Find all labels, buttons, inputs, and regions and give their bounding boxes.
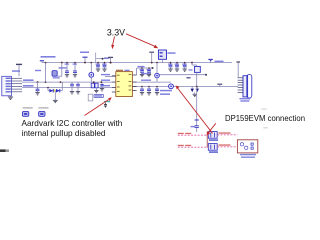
ground below diodes	[53, 91, 58, 103]
net label TMDS2r	[219, 144, 231, 145]
label right of U3	[168, 52, 176, 54]
node junction on SCL	[37, 81, 39, 83]
diode D1	[48, 88, 62, 93]
wire vertical x45.5 rail to SCL	[45, 62, 47, 83]
net label TMDS2	[178, 145, 184, 146]
micro text TPD label top-left	[41, 56, 56, 58]
ESD chip U11	[208, 144, 218, 153]
wire SCL_3V3	[22, 81, 116, 83]
capacitor C5	[102, 62, 107, 72]
net label SDA_3V3	[23, 85, 34, 87]
node junction rail x192	[191, 62, 193, 64]
capacitor C17	[191, 126, 199, 132]
power flag T on bus	[217, 84, 222, 86]
connector J1	[2, 70, 22, 96]
svg-text:DP159EVM connection: DP159EVM connection	[225, 113, 305, 123]
labels below J2	[239, 98, 250, 99]
connector J3 HDMI	[237, 140, 257, 153]
wire TMDS pair1 left dashed	[178, 134, 209, 136]
ground below J1	[8, 96, 13, 100]
capacitor C7 below SCL	[76, 82, 80, 94]
node junction on SDA	[47, 87, 49, 89]
capacitor C12	[175, 62, 180, 72]
LED DS3 on bus	[169, 84, 174, 89]
svg-text:3.3V: 3.3V	[107, 27, 125, 37]
wire upper right net seg1	[137, 67, 154, 75]
annotation arrow to 3.3V flag1	[111, 37, 114, 50]
wire TMDS pair1 right dashed	[217, 134, 237, 136]
power flag 3.3V target1	[108, 57, 113, 63]
capacitor C9	[140, 67, 145, 77]
annotation arrow from Aardvark text to U1	[85, 97, 112, 115]
svg-text:internal pullup disabled: internal pullup disabled	[22, 128, 106, 138]
capacitor C4	[96, 62, 101, 72]
LED DS1	[89, 62, 94, 82]
labels below J3 HDMI CONNECTOR	[240, 154, 256, 155]
wire vertical maroon x207	[206, 132, 208, 148]
faint smudge below DP159 text	[263, 127, 268, 128]
capacitor C6 below SCL	[70, 82, 74, 94]
transistor Q1 blob	[52, 67, 67, 78]
wire 3.3V rail	[42, 62, 232, 64]
node junctions on SCL near U1	[93, 81, 95, 83]
label 3.3V small blue	[35, 70, 41, 71]
power flag right T	[149, 52, 154, 63]
capacitor C10	[147, 67, 152, 77]
capacitor C16	[155, 86, 159, 95]
net labels below bus	[160, 90, 172, 92]
annotation arrow to 3.3V flag2	[126, 34, 158, 48]
jumper JMP1	[22, 107, 32, 116]
connector J2 right	[238, 75, 252, 99]
faint smudge above DP159 text	[262, 109, 267, 110]
wire SCL right	[132, 81, 171, 83]
resistor R2 box	[94, 83, 98, 93]
regulator U3 box target2	[158, 50, 166, 63]
component box U2 outline	[88, 94, 93, 101]
ferrite bead FB1	[189, 63, 201, 88]
net label TMDS1r	[219, 132, 231, 133]
net label SCL_3V3	[23, 79, 34, 81]
wire small branch x95.7	[96, 53, 110, 63]
diode pair D3 D4 on bus	[191, 87, 200, 93]
diode D2	[56, 82, 62, 92]
power net flag on rail x210	[208, 59, 212, 62]
label box SLEW	[94, 94, 104, 97]
capacitor C8 dark	[104, 103, 107, 108]
wire TMDS pair2 right dashed	[217, 146, 237, 148]
annotation arrow long to I2C bus	[176, 86, 213, 134]
teal net text	[104, 101, 110, 102]
dark bar bottom-left edge	[0, 149, 9, 152]
node junction on rail x61.8	[61, 62, 63, 64]
wire upper right net seg2	[159, 74, 206, 76]
capacitor C15	[147, 86, 151, 95]
capacitor C13	[182, 62, 187, 72]
capacitor C14	[140, 86, 144, 95]
net label right of flag	[215, 61, 224, 63]
wire SDA_3V3	[22, 87, 116, 89]
wire SDA right bus	[132, 86, 238, 88]
wire TMDS pair2 left dashed	[178, 146, 209, 148]
ESD chip U10	[208, 132, 218, 141]
power flag 3.3V left	[16, 64, 22, 76]
jumper JMP2	[39, 107, 49, 116]
ground below diode pair	[193, 92, 197, 96]
net label above seg1	[138, 66, 145, 67]
capacitor C2	[65, 62, 70, 77]
resistor R1 box	[91, 83, 94, 88]
capacitor C1	[35, 82, 39, 95]
wire pin1 stub left of U1	[105, 76, 116, 78]
wire vertical power to HDMI section	[195, 87, 199, 126]
label mark x188	[187, 77, 191, 79]
net label TMDS1	[178, 133, 184, 134]
power flag 3V3 on rail start	[40, 61, 44, 63]
net labels left of U1	[101, 74, 110, 75]
capacitor C18 below SCL	[100, 82, 104, 91]
power flag VCC mid	[80, 52, 89, 64]
annotation arrow from DP159EVM text to U10	[207, 123, 216, 135]
power flag above J2	[236, 62, 240, 78]
op-amp U1 DP159 IC	[112, 70, 137, 97]
LED DS2	[155, 62, 160, 82]
capacitor C11	[168, 62, 173, 72]
net labels right of U1	[141, 73, 151, 74]
svg-text:Aardvark I2C controller with: Aardvark I2C controller with	[22, 118, 123, 128]
capacitor C3	[73, 62, 78, 77]
